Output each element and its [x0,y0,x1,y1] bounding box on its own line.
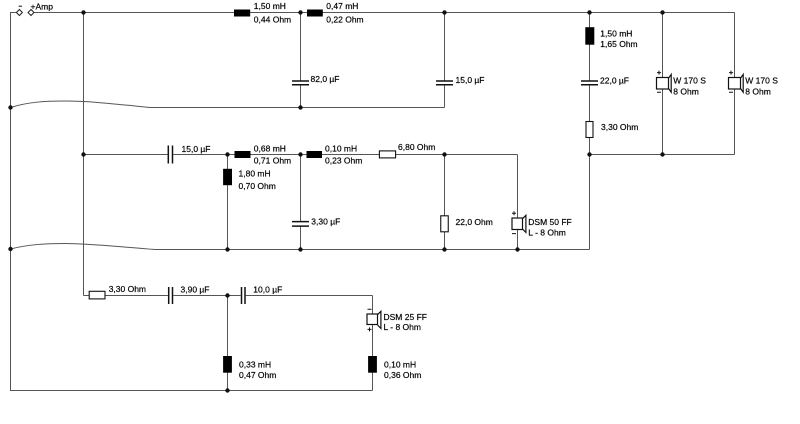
svg-text:22,0 µF: 22,0 µF [600,76,629,86]
svg-text:1,65 Ohm: 1,65 Ohm [600,39,637,49]
svg-text:22,0 Ohm: 22,0 Ohm [456,217,493,227]
junction left rail top return [8,105,12,109]
wire DSM50 branch [517,155,519,250]
svg-text:0,36 Ohm: 0,36 Ohm [384,370,421,380]
svg-text:0,70 Ohm: 0,70 Ohm [239,181,276,191]
svg-text:0,10 mH: 0,10 mH [325,144,357,154]
svg-text:3,90 µF: 3,90 µF [181,285,210,295]
capacitor C5 3,30uF [292,222,309,227]
wire woofer1 branch [662,13,664,155]
junction mid return at x=300 [298,247,302,251]
inductor L2 0,47mH top [307,10,323,17]
svg-text:DSM 50 FF: DSM 50 FF [528,217,571,227]
inductor L3 1,50mH vertical [585,27,594,45]
capacitor C7 10,0uF [242,287,246,304]
svg-text:6,80 Ohm: 6,80 Ohm [398,142,435,152]
svg-text:82,0 µF: 82,0 µF [311,74,340,84]
speaker LS2 W 170 S [729,71,744,93]
wire top return (curved) [11,101,445,108]
wire 22Ohm branch [444,155,446,250]
svg-text:0,71 Ohm: 0,71 Ohm [254,156,291,166]
speaker LS3 DSM 50 FF [512,211,526,233]
wire 3.30uF branch [300,155,302,250]
svg-text:W 170 S: W 170 S [745,76,778,86]
inductor L1 1,50mH top [234,10,250,17]
svg-text:+Amp: +Amp [31,2,54,12]
capacitor C4 15,0uF mid [168,146,172,164]
speaker LS1 W 170 S [657,71,672,93]
svg-text:8 Ohm: 8 Ohm [745,87,771,97]
wire series branch x=589 [589,13,591,155]
svg-text:1,50 mH: 1,50 mH [254,1,286,11]
junction mid rail at x=227 [225,152,229,156]
svg-text:10,0 µF: 10,0 µF [253,285,282,295]
wire top rail [31,12,735,14]
svg-text:0,68 mH: 0,68 mH [254,144,286,154]
capacitor C1 82,0uF [292,81,309,85]
wire left minus rail [11,13,373,391]
svg-text:L - 8 Ohm: L - 8 Ohm [528,228,565,238]
svg-text:0,47 Ohm: 0,47 Ohm [239,370,276,380]
wire series branch lower x=589 [589,155,591,250]
svg-text:15,0 µF: 15,0 µF [456,75,485,85]
speaker LS4 DSM 25 FF [367,309,381,331]
junction top rail at x=589 [587,10,591,14]
resistor R2 6,80 Ohm [379,151,395,158]
svg-text:0,47 mH: 0,47 mH [326,1,358,11]
junction mid return at x=227 [225,247,229,251]
resistor R1 3,30 Ohm vertical [586,122,593,138]
wire main vertical feed [83,13,85,296]
junction bottom feed at x=227 [225,293,229,297]
inductor L4 0,68mH [235,151,251,158]
svg-text:8 Ohm: 8 Ohm [673,87,699,97]
wire mid rail [84,154,518,156]
svg-text:0,23 Ohm: 0,23 Ohm [325,156,362,166]
resistor R4 3,30 Ohm bottom [89,291,105,299]
wire woofer2 branch [734,13,736,155]
wire 0.33mH branch [227,296,229,391]
svg-text:3,30 µF: 3,30 µF [311,216,340,226]
junction top rail at x=663 [660,10,664,14]
junction top rail at x=445 [442,10,446,14]
junction top rail at x=300 [298,10,302,14]
svg-text:L - 8 Ohm: L - 8 Ohm [384,322,421,332]
junction top return at x=300 [298,105,302,109]
junction woofer return at x=589 [587,152,591,156]
capacitor C6 3,90uF [169,287,173,304]
svg-text:0,22 Ohm: 0,22 Ohm [326,15,363,25]
svg-text:DSM 25 FF: DSM 25 FF [384,312,427,322]
wire 1.80mH branch [227,155,229,250]
svg-text:W 170 S: W 170 S [673,76,706,86]
svg-text:3,30 Ohm: 3,30 Ohm [109,284,146,294]
resistor R3 22,0 Ohm vertical [441,216,449,232]
svg-text:0,10 mH: 0,10 mH [384,359,416,369]
inductor L8 0,10mH vertical [368,356,377,373]
inductor L6 0,10mH [307,151,323,158]
junction mid return at x=517 [515,247,519,251]
junction mid rail at x=83 [81,152,85,156]
wire mid return (curved) [11,244,590,250]
svg-text:1,50 mH: 1,50 mH [600,29,632,39]
wire DSM25 branch [372,296,374,391]
junction mid return at x=445 [442,247,446,251]
capacitor C3 22,0uF [581,81,598,85]
wire woofer return rail [590,154,735,156]
terminal plus [28,10,34,16]
junction mid rail at x=445 [442,152,446,156]
junction woofer return at x=663 [660,152,664,156]
junction bottom return at x=227 [225,388,229,392]
junction left rail mid return [8,247,12,251]
wire bottom feed [84,295,373,297]
wire 15uF top branch [444,13,446,108]
junction top rail at x=83 [81,10,85,14]
svg-text:0,33 mH: 0,33 mH [239,359,271,369]
wire 82uF branch [300,13,302,108]
capacitor C2 15,0uF top [436,81,453,85]
svg-text:0,44 Ohm: 0,44 Ohm [254,15,291,25]
terminal minus [16,10,22,16]
junction mid rail at x=300 [298,152,302,156]
svg-text:3,30 Ohm: 3,30 Ohm [601,122,638,132]
svg-text:15,0 µF: 15,0 µF [182,144,211,154]
label minus terminal [19,5,22,7]
inductor L5 1,80mH vertical [223,169,232,185]
svg-text:1,80 mH: 1,80 mH [239,168,271,178]
inductor L7 0,33mH vertical [223,356,232,373]
